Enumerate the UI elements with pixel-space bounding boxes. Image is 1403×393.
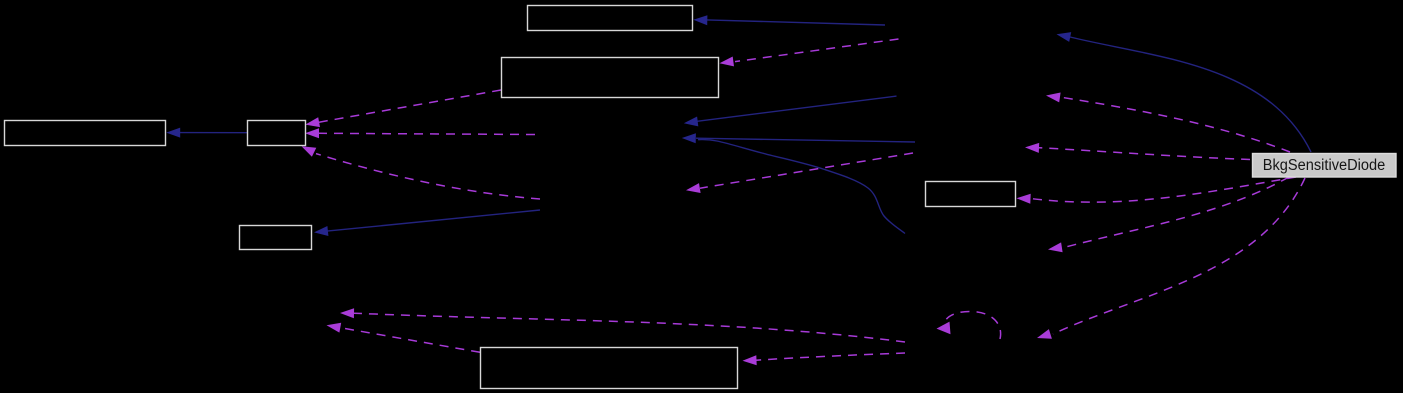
svg-text:BkgSensitiveDiode: BkgSensitiveDiode	[1263, 157, 1386, 174]
